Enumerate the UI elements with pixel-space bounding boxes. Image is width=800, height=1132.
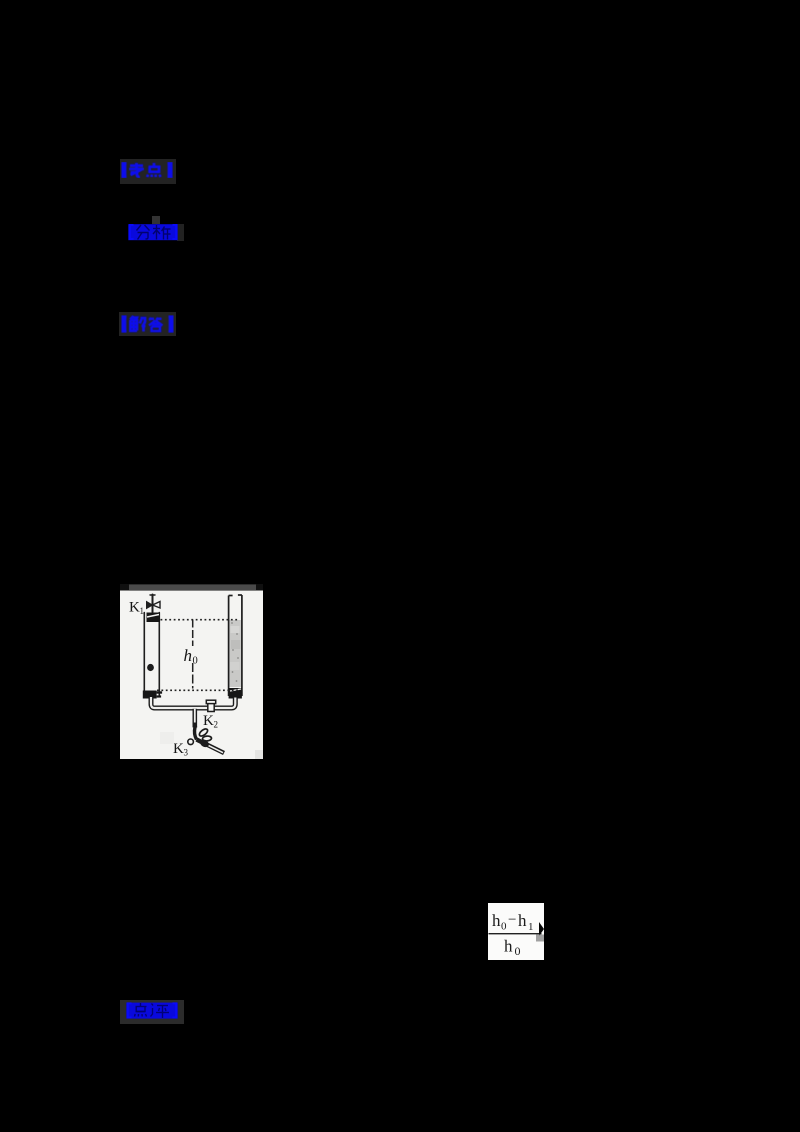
svg-text:h: h	[504, 937, 513, 956]
svg-text:0: 0	[515, 944, 521, 958]
svg-text:2: 2	[214, 720, 219, 730]
svg-text:0: 0	[501, 921, 507, 933]
svg-text:K: K	[129, 600, 140, 616]
svg-text:1: 1	[140, 606, 145, 616]
svg-text:3: 3	[184, 748, 189, 758]
svg-text:h: h	[492, 911, 501, 930]
svg-text:h: h	[184, 646, 193, 665]
svg-text:h: h	[518, 911, 527, 930]
svg-text:K: K	[203, 713, 214, 729]
svg-text:1: 1	[528, 921, 534, 933]
svg-text:−: −	[508, 912, 516, 928]
svg-text:K: K	[173, 741, 184, 757]
svg-text:0: 0	[193, 656, 198, 667]
